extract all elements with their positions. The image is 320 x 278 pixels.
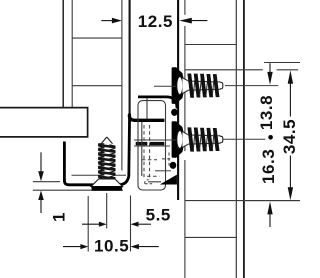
svg-text:10.5: 10.5 — [94, 237, 129, 256]
svg-text:5.5: 5.5 — [146, 206, 171, 225]
svg-text:12.5: 12.5 — [138, 12, 173, 31]
svg-text:34.5: 34.5 — [280, 119, 299, 154]
svg-text:1: 1 — [49, 212, 68, 222]
svg-text:16.3: 16.3 — [259, 149, 278, 184]
svg-text:13.8: 13.8 — [257, 95, 276, 130]
